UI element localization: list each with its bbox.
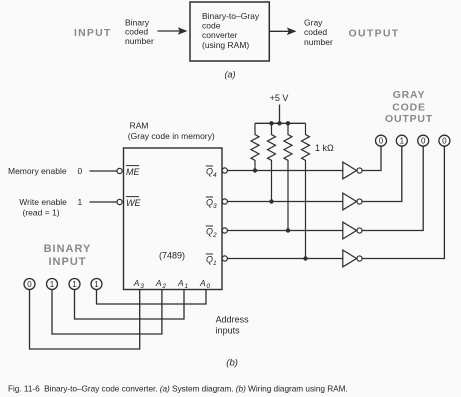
pin bubble Q1: [222, 256, 227, 261]
label: Gray coded number: [304, 17, 333, 47]
wire memory enable input: [90, 170, 117, 172]
svg-text:RAM: RAM: [130, 120, 149, 130]
svg-text:number: number: [304, 37, 333, 47]
label BINARY INPUT: [44, 243, 92, 268]
node B1 input bit 1: [69, 279, 80, 290]
svg-text:Q: Q: [206, 198, 213, 208]
node B0 input bit 1: [91, 279, 102, 290]
svg-text:(read = 1): (read = 1): [23, 208, 60, 218]
svg-text:A: A: [133, 278, 140, 288]
node G2 output bit 0: [418, 135, 429, 146]
junction dot rail-R2: [269, 121, 273, 125]
wire +5V rail: [255, 122, 306, 124]
wire arrow out of converter box: [269, 28, 296, 36]
label (Gray code in memory): [128, 131, 215, 141]
node G1 output bit 0: [439, 135, 450, 146]
wire B3 to A3: [30, 289, 140, 349]
resistor R3 1k: [284, 123, 292, 230]
label Write enable 1 (read = 1): [19, 197, 82, 218]
svg-text:0: 0: [207, 283, 211, 290]
label (b): [226, 357, 238, 368]
label inside converter box: [202, 11, 260, 50]
svg-text:WE: WE: [126, 198, 141, 208]
svg-text:3: 3: [213, 203, 217, 210]
svg-text:Memory enable: Memory enable: [8, 166, 67, 176]
svg-text:code: code: [202, 21, 221, 31]
pin label Q3: [206, 197, 217, 210]
svg-text:1: 1: [185, 283, 189, 290]
svg-text:Gray: Gray: [304, 17, 323, 27]
svg-text:Q: Q: [206, 255, 213, 265]
svg-text:(using RAM): (using RAM): [202, 40, 249, 50]
pin bubble Q4: [222, 168, 227, 173]
svg-text:Q: Q: [206, 167, 213, 177]
pin label A0: [199, 278, 211, 290]
label (7489): [159, 250, 185, 260]
node G4 output bit 0: [376, 135, 387, 146]
svg-text:1: 1: [78, 197, 83, 207]
svg-text:INPUT: INPUT: [49, 256, 87, 268]
svg-text:number: number: [125, 36, 154, 46]
svg-text:(Gray code in memory): (Gray code in memory): [128, 131, 215, 141]
converter box U-a: [190, 2, 269, 61]
svg-text:(b): (b): [226, 357, 238, 368]
svg-text:GRAY: GRAY: [393, 89, 426, 101]
svg-text:+5 V: +5 V: [270, 93, 289, 103]
wire Q3 to inverter 2: [227, 201, 342, 203]
svg-text:2: 2: [161, 283, 166, 290]
pin label A3: [133, 278, 145, 290]
wire write enable input: [90, 201, 117, 203]
svg-text:INPUT: INPUT: [74, 27, 112, 39]
svg-text:A: A: [199, 278, 206, 288]
svg-text:4: 4: [213, 172, 217, 179]
resistor R4 1k: [302, 123, 310, 258]
wire B2 to A2: [52, 289, 162, 334]
wire arrow into converter box: [158, 27, 188, 35]
wire inverter 1 output to G4: [362, 146, 381, 170]
label (a): [225, 70, 236, 80]
svg-text:(7489): (7489): [159, 250, 185, 260]
label OUTPUT: [349, 27, 400, 39]
svg-text:1: 1: [72, 280, 77, 289]
wire Q2 to inverter 3: [227, 230, 342, 232]
label GRAY CODE OUTPUT: [385, 89, 433, 125]
svg-text:0: 0: [379, 137, 384, 146]
svg-text:1: 1: [50, 280, 55, 289]
junction dot rail-R3: [286, 121, 290, 125]
wire B1 to A1: [75, 289, 185, 319]
svg-text:Address: Address: [216, 315, 250, 325]
junction dot R4-Q1: [303, 256, 307, 260]
svg-text:OUTPUT: OUTPUT: [385, 113, 433, 125]
node G3 output bit 1: [396, 135, 407, 146]
junction dot R2-Q3: [269, 199, 273, 203]
svg-text:(a): (a): [225, 70, 236, 80]
svg-text:Write enable: Write enable: [19, 197, 67, 207]
svg-text:Binary-to–Gray: Binary-to–Gray: [202, 11, 260, 21]
pin bubble Q2: [222, 228, 227, 233]
pin bubble WE: [117, 199, 122, 204]
label: Binary coded number: [125, 18, 154, 46]
wire B0 to A0: [97, 289, 207, 304]
node B3 input bit 0: [24, 279, 35, 290]
label +5 V: [270, 93, 289, 103]
svg-text:0: 0: [27, 280, 32, 289]
svg-text:converter: converter: [202, 30, 238, 40]
pin label A1: [177, 278, 189, 290]
caption Fig. 11-6: [8, 384, 348, 394]
label RAM: [130, 120, 149, 130]
label Address inputs: [216, 315, 250, 336]
pin label Q4: [206, 166, 217, 179]
junction dot R1-Q4: [253, 168, 257, 172]
svg-text:1: 1: [213, 260, 217, 267]
svg-text:A: A: [155, 278, 162, 288]
RAM IC U1 7489: [124, 148, 223, 290]
label 1 kOhm: [315, 143, 334, 153]
wire inverter 2 output to G3: [362, 146, 402, 201]
svg-text:CODE: CODE: [392, 101, 426, 113]
svg-text:Fig. 11-6 Binary-to–Gray code: Fig. 11-6 Binary-to–Gray code converter.…: [8, 384, 348, 394]
wire inverter 3 output to G2: [362, 146, 423, 230]
pin bubble ME: [117, 168, 122, 173]
svg-text:0: 0: [442, 137, 447, 146]
wire Q4 to inverter 1: [227, 170, 342, 172]
pin label Q2: [206, 226, 217, 239]
resistor R2 1k: [268, 123, 276, 201]
pin label A2: [155, 278, 167, 290]
inverter U2c: [343, 222, 362, 239]
svg-text:1: 1: [400, 137, 405, 146]
svg-text:BINARY: BINARY: [44, 243, 92, 255]
pin label ME: [126, 166, 140, 177]
junction dot rail-+5V: [277, 121, 281, 125]
pin label WE: [126, 197, 141, 208]
svg-text:1: 1: [94, 280, 99, 289]
svg-text:inputs: inputs: [216, 326, 241, 336]
svg-text:0: 0: [421, 137, 426, 146]
svg-text:coded: coded: [304, 27, 327, 37]
node B2 input bit 1: [47, 279, 58, 290]
pin bubble Q3: [222, 199, 227, 204]
wire Q1 to inverter 4: [227, 258, 342, 260]
inverter U2a: [343, 162, 362, 179]
resistor R1 1k: [251, 123, 259, 170]
wire +5V stem: [279, 105, 281, 124]
inverter U2b: [343, 193, 362, 210]
svg-text:OUTPUT: OUTPUT: [349, 27, 400, 39]
svg-text:0: 0: [78, 166, 83, 176]
inverter U2d: [343, 250, 362, 267]
svg-text:2: 2: [212, 232, 217, 239]
svg-text:Q: Q: [206, 227, 213, 237]
wire inverter 4 output to G1: [362, 146, 445, 258]
svg-text:A: A: [177, 278, 184, 288]
label INPUT: [74, 27, 112, 39]
junction dot R3-Q2: [286, 228, 290, 232]
svg-text:3: 3: [140, 283, 144, 290]
svg-text:1 kΩ: 1 kΩ: [315, 143, 334, 153]
label Memory enable 0: [8, 166, 83, 176]
pin label Q1: [206, 254, 217, 267]
svg-text:ME: ME: [126, 167, 140, 177]
